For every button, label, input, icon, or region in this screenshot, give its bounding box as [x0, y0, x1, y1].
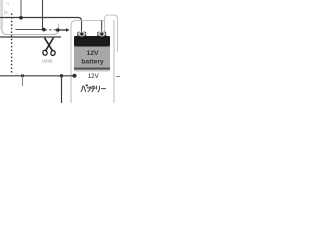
- annotation arrow shaft: [58, 29, 66, 31]
- dotted vertical line: [11, 14, 13, 73]
- bottom wire end dot: [73, 74, 77, 78]
- battery body bottom edge: [74, 68, 110, 70]
- arrowhead: [66, 28, 70, 32]
- battery enclosure box: [71, 21, 105, 109]
- vertical stub wire: [20, 0, 22, 18]
- scissors: [42, 38, 56, 56]
- wire top horizontal to battery: [0, 18, 82, 22]
- battery top band: [74, 36, 110, 47]
- wire down into left battery terminal: [81, 20, 83, 33]
- bottom wire: [0, 75, 75, 77]
- battery left terminal: [77, 31, 86, 38]
- small tick right edge: [116, 76, 120, 78]
- mid horizontal wire: [16, 29, 44, 31]
- small gray glyph top-left lower: [5, 11, 8, 14]
- junction dot bottom wire left: [21, 74, 24, 77]
- junction dot on top wire: [19, 16, 23, 20]
- small gray glyph top-left upper: [6, 3, 8, 5]
- wire down into right battery terminal: [101, 21, 103, 33]
- background: [0, 0, 120, 103]
- right tall box: [105, 15, 118, 52]
- gray panel box bottom-left (cropped large rounded rect): [2, 0, 59, 35]
- svg-text:12V: 12V: [88, 73, 100, 80]
- svg-text:battery: battery: [81, 59, 104, 66]
- annotation dot: [56, 28, 60, 32]
- junction dot mid wire: [42, 28, 46, 32]
- junction dot bottom wire right: [60, 74, 63, 77]
- svg-text:U586: U586: [42, 59, 53, 64]
- faint outer left border line: [0, 0, 2, 30]
- lower horizontal wire (cut wire): [0, 36, 61, 38]
- battery right terminal: [97, 31, 106, 38]
- svg-text:12V: 12V: [86, 50, 99, 57]
- dashed lead line: [45, 29, 56, 31]
- vertical wire down right: [61, 76, 63, 103]
- vertical wire crossing: [42, 0, 44, 30]
- caption battery katakana: [81, 85, 105, 92]
- battery under shadow: [75, 70, 110, 72]
- vertical wire down left: [22, 76, 24, 86]
- battery body: [74, 47, 110, 70]
